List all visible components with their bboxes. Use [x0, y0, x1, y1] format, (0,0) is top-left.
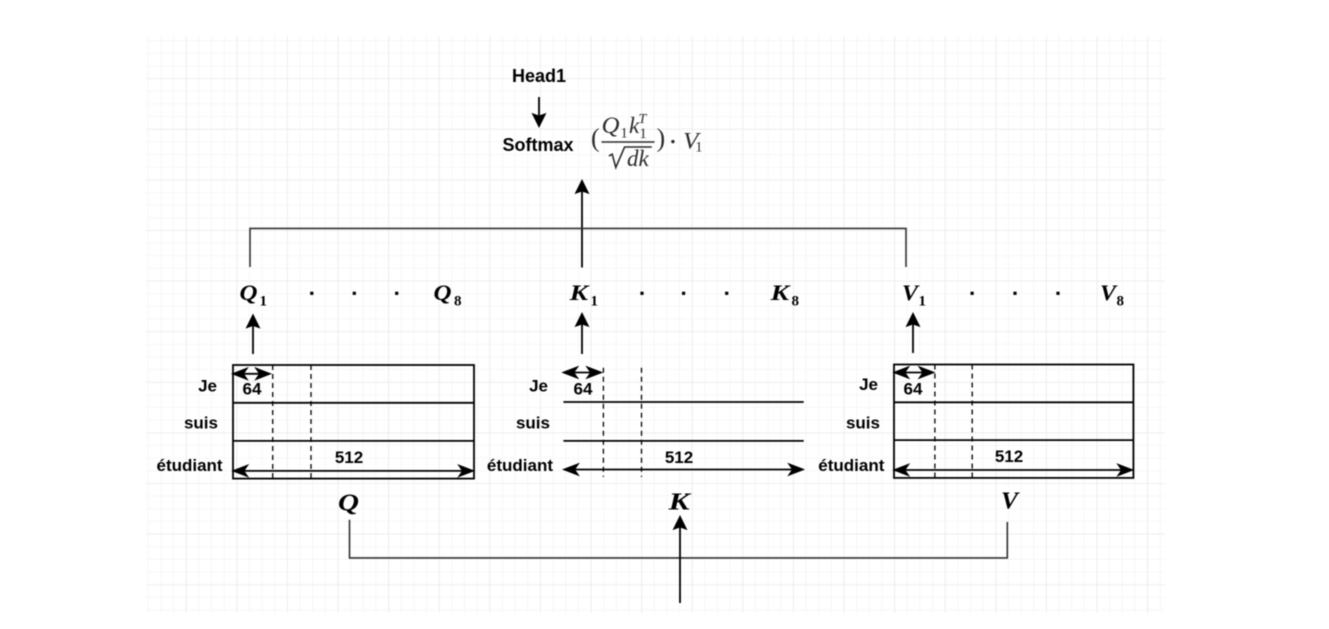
- svg-text:Q: Q: [602, 113, 620, 138]
- svg-text:Je: Je: [198, 377, 217, 396]
- svg-text:Head1: Head1: [512, 66, 566, 86]
- bottom arrow up to K: [674, 517, 685, 603]
- svg-text:K: K: [568, 280, 589, 305]
- grid background canvas: [146, 36, 1165, 613]
- svg-text:1: 1: [621, 126, 628, 142]
- svg-text:Je: Je: [529, 377, 548, 396]
- svg-text:Softmax: Softmax: [502, 135, 573, 155]
- K1 ... K8 row: [568, 280, 799, 310]
- svg-text:T: T: [639, 112, 648, 127]
- svg-text:Je: Je: [859, 375, 878, 394]
- svg-text:8: 8: [1117, 294, 1125, 310]
- K matrix dashed column dividers: [603, 368, 641, 477]
- up arrow from bracket to formula: [576, 181, 587, 268]
- svg-text:1: 1: [260, 294, 268, 310]
- Q 64 arrow: [233, 369, 269, 379]
- svg-text:8: 8: [792, 294, 800, 310]
- V1 ... V8 row: [902, 280, 1124, 310]
- K matrix lines: [563, 402, 803, 441]
- bracket connecting Q1 K1 V1: [250, 228, 906, 267]
- svg-text:Q: Q: [434, 280, 452, 305]
- svg-text:512: 512: [995, 447, 1023, 466]
- bottom bracket Q-V: [350, 520, 1008, 558]
- svg-text:8: 8: [454, 294, 462, 310]
- svg-text:suis: suis: [846, 414, 880, 433]
- svg-text:K: K: [667, 490, 692, 516]
- svg-text:1: 1: [695, 140, 702, 156]
- svg-text:): ): [657, 124, 666, 153]
- svg-text:64: 64: [574, 380, 593, 399]
- svg-text:1: 1: [640, 126, 647, 142]
- arrow matrix V to V1: [907, 314, 918, 353]
- svg-text:1: 1: [591, 294, 599, 310]
- svg-text:64: 64: [243, 380, 262, 399]
- arrow matrix K to K1: [576, 314, 587, 354]
- svg-text:étudiant: étudiant: [156, 456, 222, 475]
- V matrix box: [894, 365, 1133, 478]
- V matrix dashed column dividers: [935, 365, 972, 478]
- svg-text:Q: Q: [338, 491, 359, 517]
- svg-text:1: 1: [919, 294, 927, 310]
- svg-text:dk: dk: [627, 146, 650, 171]
- svg-text:V: V: [1001, 488, 1020, 514]
- arrow matrix Q to Q1: [247, 316, 258, 355]
- svg-text:64: 64: [904, 380, 923, 399]
- formula (Q1k1^T/sqrt(dk)).V1: [591, 112, 703, 171]
- Q1 ... Q8 row: [240, 280, 462, 310]
- svg-text:étudiant: étudiant: [818, 456, 884, 475]
- svg-text:K: K: [769, 280, 790, 305]
- svg-text:suis: suis: [516, 414, 550, 433]
- svg-text:(: (: [591, 124, 600, 153]
- K 64 arrow: [564, 368, 601, 378]
- svg-text:512: 512: [335, 448, 363, 467]
- svg-text:suis: suis: [184, 414, 218, 433]
- arrow Head1 to Softmax: [533, 97, 544, 126]
- Q matrix box: [233, 365, 474, 479]
- V 64 arrow: [895, 368, 933, 378]
- svg-text:étudiant: étudiant: [487, 456, 553, 475]
- Q matrix dashed column dividers: [273, 365, 311, 479]
- svg-text:Q: Q: [240, 280, 258, 305]
- svg-text:512: 512: [665, 448, 693, 467]
